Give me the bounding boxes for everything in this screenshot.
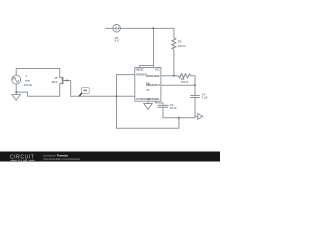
svg-text:V: V bbox=[25, 74, 27, 78]
svg-text:http://circuitlab.com/c/6svk4d: http://circuitlab.com/c/6svk4dw bbox=[44, 157, 81, 161]
svg-text:VCC: VCC bbox=[155, 69, 160, 71]
svg-text:DISCHARGE: DISCHARGE bbox=[146, 75, 160, 78]
svg-text:THRESHOLD: THRESHOLD bbox=[146, 85, 160, 87]
svg-text:10 nF: 10 nF bbox=[170, 106, 177, 110]
svg-text:1 µF: 1 µF bbox=[202, 95, 208, 99]
svg-text:sine: sine bbox=[25, 79, 31, 83]
svg-text:100 Ω: 100 Ω bbox=[178, 44, 186, 48]
svg-text:J310: J310 bbox=[51, 80, 58, 84]
svg-text:LAB: LAB bbox=[21, 158, 28, 162]
svg-text:9 V: 9 V bbox=[114, 39, 118, 43]
svg-text:100 Ω: 100 Ω bbox=[181, 80, 189, 84]
svg-text:RESET: RESET bbox=[136, 69, 144, 71]
svg-text:440 Hz: 440 Hz bbox=[24, 83, 33, 87]
svg-text:CONTROL: CONTROL bbox=[148, 99, 160, 101]
